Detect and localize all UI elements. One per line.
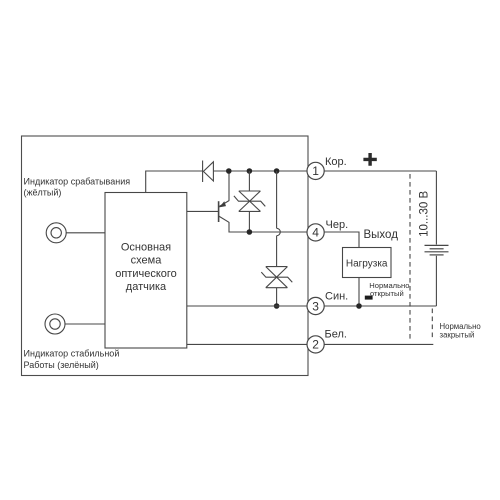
svg-text:Индикатор стабильной: Индикатор стабильной [24, 348, 120, 358]
white rail from box to NC dashed line [187, 343, 433, 345]
svg-text:4: 4 [312, 226, 319, 240]
svg-text:Нормально: Нормально [440, 322, 482, 331]
wire LED2 to main box [65, 323, 105, 325]
svg-text:оптического: оптического [115, 268, 177, 280]
svg-text:Индикатор срабатывания: Индикатор срабатывания [24, 176, 131, 186]
node: TVS1 top junction [247, 168, 253, 174]
transistor Q1 (PNP output) [219, 201, 229, 223]
NO marker square [365, 296, 373, 300]
svg-text:датчика: датчика [126, 281, 167, 293]
svg-text:закрытый: закрытый [440, 331, 475, 340]
diode D1 (reverse polarity protection) [203, 161, 214, 183]
load box Нагрузка [343, 248, 392, 278]
plus symbol [363, 153, 376, 166]
indicator LED1 (yellow) [46, 223, 66, 243]
supply rail to terminal 1 and battery [213, 170, 436, 172]
svg-text:1: 1 [312, 164, 319, 178]
node: emitter junction on supply rail [226, 168, 232, 174]
terminal 1 [307, 162, 324, 179]
svg-text:Чер.: Чер. [326, 219, 349, 231]
label Нормально закрытый [440, 322, 482, 340]
svg-text:Выход: Выход [364, 229, 399, 241]
load branch: wire from terminal 4 down to load [324, 232, 359, 248]
blue rail from box to battery minus [187, 305, 437, 307]
indicator LED2 (green) [45, 314, 65, 334]
wire riser from box top to supply rail [146, 171, 203, 193]
transistor Q1 base lead from box [187, 210, 219, 212]
node: load junction on blue rail [356, 303, 362, 309]
svg-text:Син.: Син. [325, 291, 348, 303]
svg-text:Кор.: Кор. [325, 156, 347, 168]
wire Q1 emitter up to rail [228, 171, 230, 201]
svg-text:2: 2 [312, 338, 319, 352]
node: branch junction on supply rail [274, 168, 280, 174]
terminal 2 [307, 336, 324, 353]
svg-text:Основная: Основная [121, 241, 171, 253]
wire TVS1 bottom lead [248, 211, 250, 232]
wire LED1 to main box [66, 232, 105, 234]
terminal 4 [307, 224, 324, 241]
svg-text:Нагрузка: Нагрузка [346, 258, 388, 269]
battery V1 [425, 171, 449, 306]
main sensor circuit box [105, 193, 187, 349]
dashed line NC (normally closed) [431, 309, 433, 338]
label: Индикатор стабильной Работы (зелёный) [24, 348, 120, 370]
main box label [115, 241, 177, 293]
svg-text:(жёлтый): (жёлтый) [24, 187, 62, 197]
node: TVS2 bottom junction [274, 303, 280, 309]
wire load bottom to blue rail [358, 278, 360, 307]
wire branch down with hop over output rail [277, 171, 281, 267]
wire TVS2 bottom lead [276, 288, 278, 306]
svg-text:Бел.: Бел. [325, 328, 347, 340]
terminal 3 [307, 297, 324, 314]
label Нормально открытый [369, 281, 409, 298]
TVS suppressor VD1 [234, 191, 265, 211]
TVS suppressor VD2 [261, 267, 292, 288]
wire Q1 collector down to output rail [229, 222, 359, 232]
sensor housing outline [22, 136, 309, 376]
svg-text:10...30 В: 10...30 В [419, 191, 431, 237]
node: TVS1 bottom junction [247, 229, 253, 235]
svg-text:открытый: открытый [370, 289, 404, 298]
wire TVS1 top lead [248, 171, 250, 191]
svg-text:Работы (зелёный): Работы (зелёный) [24, 360, 99, 370]
svg-text:схема: схема [131, 255, 163, 267]
dashed line NO (normally open) [409, 174, 411, 341]
svg-text:3: 3 [312, 299, 319, 313]
label: Индикатор срабатывания (жёлтый) [24, 176, 131, 197]
